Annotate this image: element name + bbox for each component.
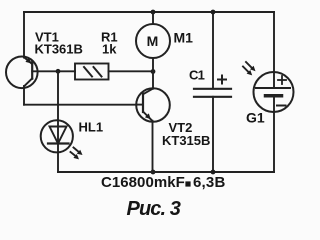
plus sign G1 [278, 76, 286, 84]
wire C1 bottom [212, 97, 214, 172]
svg-text:KT315B: KT315B [162, 133, 210, 148]
plus sign C1 [218, 76, 226, 84]
transistor VT1 [6, 57, 38, 89]
node top rail M1 [151, 10, 156, 15]
wire right rail bottom [273, 96, 275, 172]
wire HL1 branch vertical [57, 71, 59, 172]
wire left drop to VT1 emitter [23, 12, 25, 58]
node bottom rail C1 [211, 170, 216, 175]
wire R1 to node A [109, 70, 154, 72]
svg-text:C16800mkF: C16800mkF [101, 174, 185, 191]
wire VT1 collector to VT2 base [24, 104, 137, 106]
minus sign G1 [277, 105, 286, 107]
resistor R1 [75, 64, 109, 80]
wire right rail top [273, 12, 275, 88]
wire VT1 collector down [23, 86, 25, 105]
wire C1 top [212, 12, 214, 88]
wire top rail [24, 11, 274, 13]
svg-text:1k: 1k [102, 42, 117, 57]
svg-text:G1: G1 [246, 110, 265, 126]
wire M1 to VT2 collector [152, 58, 154, 89]
node A junction R1-VT2 collector [151, 69, 156, 74]
svg-text:M: M [147, 33, 159, 49]
battery G1 [254, 72, 294, 112]
wire bottom rail [58, 171, 274, 173]
svg-text:M1: M1 [174, 30, 194, 46]
wire VT1 base lead to R1 [32, 70, 75, 72]
node junction base-HL1 [56, 69, 61, 74]
G1 light arrow 2 [243, 67, 252, 76]
HL1 light arrow 2 [71, 152, 80, 159]
wire M1 top lead [152, 12, 154, 24]
wire VT2 emitter down [152, 121, 154, 172]
svg-text:Рис. 3: Рис. 3 [127, 198, 181, 220]
LED HL1 [41, 120, 73, 152]
G1 light arrow 1 [246, 62, 256, 71]
svg-text:HL1: HL1 [79, 120, 104, 135]
svg-text:C1: C1 [189, 68, 205, 83]
svg-text:KT361B: KT361B [35, 42, 83, 57]
node VT2 emitter bottom rail [151, 170, 156, 175]
HL1 light arrow 1 [74, 148, 83, 156]
node top rail C1 [211, 10, 216, 15]
capacitor C1 [194, 89, 231, 97]
transistor VT2 [136, 88, 170, 122]
motor M1 [136, 24, 170, 58]
svg-text:6,3B: 6,3B [193, 174, 226, 191]
